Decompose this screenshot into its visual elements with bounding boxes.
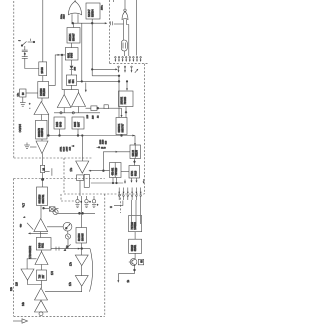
- node dot W5 x59.5: [59, 135, 61, 137]
- wire C1 to C2 with node: [24, 52, 25, 57]
- svg-text:351161: 351161: [70, 33, 72, 41]
- wire B12 to B11: [121, 170, 129, 172]
- wire x118 down with arrowhead: [117, 274, 119, 283]
- wire W9 (y213.3): [58, 212, 95, 214]
- svg-text:93010: 93010: [132, 244, 134, 251]
- node dot x92 y69: [91, 69, 93, 71]
- op-amp U5 (apex up): [35, 252, 48, 265]
- box B8: [116, 118, 127, 135]
- resistor R1 inline box: [91, 106, 97, 111]
- long wire W5 (y135.5): [47, 135, 135, 137]
- svg-text:4405: 4405: [66, 146, 68, 152]
- wire TD4 down and left (y291.7): [45, 286, 82, 292]
- svg-text:8386379: 8386379: [39, 127, 41, 137]
- gate U2 side label: [61, 13, 66, 19]
- wire y75.8 to node: [92, 75, 119, 77]
- op-amp U7 (apex up): [35, 300, 48, 312]
- svg-text:218: 218: [87, 114, 89, 118]
- wire leg x140.4 down to B19: [139, 200, 141, 216]
- transistor Q1: [129, 259, 137, 266]
- arrow symbol node 1: [28, 39, 35, 43]
- node dot at x92: [91, 22, 93, 24]
- wire B1 to B2: [42, 76, 44, 82]
- box B7: [119, 91, 134, 107]
- box B0 small input box: [20, 89, 26, 97]
- connector circle under U7: [39, 312, 43, 316]
- wire B18 down: [81, 243, 83, 249]
- meter circle M1: [63, 222, 72, 231]
- triangle TD2 (apex down): [76, 161, 89, 173]
- svg-text:17c: 17c: [71, 167, 73, 172]
- wire U5 to B17: [41, 265, 43, 271]
- wire R3 down through border: [42, 173, 44, 187]
- svg-text:8018: 8018: [135, 170, 137, 176]
- spark-gap glyph 1: [76, 196, 80, 208]
- svg-text:90: 90: [23, 92, 25, 95]
- node dot y55: [61, 54, 63, 56]
- wire B20 to transistor Q1: [134, 253, 136, 258]
- zigzag arrow pointer: [63, 244, 70, 251]
- dashed border bottom (lower section): [14, 315, 105, 317]
- svg-text:24VDC: 24VDC: [18, 124, 22, 132]
- gate U2 input leg right: [77, 14, 79, 23]
- wire x136.4 from top: [135, 0, 137, 56]
- capacitor C2: [22, 57, 28, 59]
- diode D1: [70, 60, 74, 75]
- svg-text:f: f: [18, 40, 22, 41]
- svg-text:9784: 9784: [132, 170, 134, 176]
- box 1a: [138, 259, 143, 264]
- triangle TD4 (apex down): [75, 276, 88, 287]
- svg-text:8113: 8113: [63, 146, 65, 151]
- svg-text:8095701: 8095701: [43, 194, 45, 204]
- ticks on W12: [56, 247, 59, 251]
- dashed border bottom (upper section): [14, 157, 93, 159]
- bypass arc wire: [90, 249, 93, 292]
- dashed border right inner (upper section): [109, 0, 111, 64]
- svg-text:17a: 17a: [22, 203, 26, 208]
- pin row 2 (y65-74): [118, 66, 139, 73]
- dashed border left (lower section): [13, 179, 15, 317]
- svg-text:4115: 4115: [64, 14, 66, 19]
- link B19 to B20: [134, 232, 136, 240]
- wire x62 down to hook: [61, 55, 63, 90]
- hook pin c: [136, 178, 138, 183]
- op-amp U6 (apex up): [35, 288, 48, 300]
- node dot after R1: [97, 107, 99, 109]
- svg-text:8849: 8849: [60, 121, 62, 127]
- wire B6 to hook: [71, 85, 73, 89]
- arrow into T2 right: [85, 83, 87, 93]
- link B7 to B8 with diamond: [125, 107, 128, 118]
- node dot on dashed border: [41, 178, 43, 180]
- wire arrow into B7 top: [126, 81, 128, 91]
- node dot (119,81.4): [118, 81, 120, 83]
- spark-gap glyph 3: [92, 196, 96, 208]
- or-gate U2 (pointing up): [68, 1, 81, 15]
- node dot (119,75.8): [118, 75, 120, 77]
- box B11: [129, 166, 140, 179]
- annotation arrow: [71, 145, 74, 147]
- triangle TD3 (apex down): [75, 255, 88, 266]
- wire B8 bottom to W5: [121, 135, 123, 136]
- node dot W5 x78: [77, 135, 79, 137]
- svg-text:718: 718: [40, 274, 42, 279]
- box P1: [54, 117, 65, 129]
- svg-text:17b: 17b: [71, 261, 73, 266]
- dashed border connector vertical: [63, 158, 65, 194]
- wire B4 to B5: [71, 43, 73, 48]
- resistor R2 inline box: [104, 105, 108, 109]
- gate U3 right leg to corner: [127, 20, 129, 25]
- node dot Q1 wire: [134, 269, 136, 271]
- box B10: [130, 145, 141, 159]
- dashed border top (lower section): [14, 178, 105, 180]
- svg-text:559407: 559407: [73, 33, 75, 41]
- dashed border left (upper section): [13, 1, 15, 158]
- box B14 right of B13: [84, 174, 89, 187]
- hook pin b: [131, 178, 133, 183]
- arrowhead on W5 right: [132, 135, 134, 137]
- arrow tick on y55 wire: [58, 54, 60, 56]
- svg-text:2751: 2751: [60, 146, 62, 152]
- svg-text:+: +: [89, 201, 91, 204]
- svg-text:8161: 8161: [69, 52, 71, 58]
- box B12: [110, 163, 122, 178]
- wire B3 to inverter T-down: [41, 139, 43, 141]
- wire gate-bus down x81.8: [81, 23, 83, 81]
- box B20: [129, 239, 142, 253]
- svg-text:2183: 2183: [100, 139, 102, 144]
- svg-text:2140: 2140: [101, 148, 106, 150]
- ground G2: [24, 143, 30, 149]
- svg-text:218196: 218196: [41, 88, 43, 96]
- wire W14 (y273.6) left: [118, 273, 134, 275]
- wire U4 to B16: [40, 232, 42, 238]
- wire vertical top feed: [42, 0, 44, 62]
- svg-text:5430: 5430: [40, 242, 42, 248]
- svg-text:31051: 31051: [135, 244, 137, 251]
- svg-text:131647: 131647: [89, 9, 91, 17]
- wire gate node to B4: [73, 23, 75, 27]
- wire B12 leg 2: [116, 178, 118, 184]
- diode D1 label: [75, 66, 77, 70]
- hook pin a: [124, 180, 126, 184]
- wire feedback from B2 right going up: [49, 55, 66, 86]
- wire switch to capacitor: [24, 46, 26, 50]
- svg-text:525534: 525534: [92, 9, 94, 17]
- wire Q1 down: [134, 266, 136, 274]
- svg-text:034: 034: [73, 79, 75, 84]
- node dot W5 x48: [48, 135, 50, 137]
- inverter TD5 (apex down, left column): [21, 269, 34, 280]
- wire drop to TD2: [82, 135, 84, 161]
- svg-text:206: 206: [75, 66, 77, 70]
- input arrow bottom left: [13, 319, 28, 323]
- switch S1: [21, 42, 26, 47]
- wire feedback from U1 base to W5: [47, 115, 49, 136]
- wire ground stub to TD1: [30, 146, 37, 148]
- wire B15 to op-amp U4: [40, 206, 42, 219]
- annotation text block: [60, 146, 71, 152]
- op-amp U4 (apex up): [34, 219, 48, 232]
- svg-text:12b: 12b: [11, 286, 13, 291]
- tick at top edge x113.5: [113, 0, 115, 2]
- svg-text:3911: 3911: [43, 242, 45, 248]
- wire arrow into B8 top: [121, 108, 123, 117]
- svg-text:12a: 12a: [17, 92, 19, 96]
- spark-gap glyph 2: [85, 196, 89, 208]
- connector pin row (y187-200): [118, 188, 141, 201]
- box B9 top right: [86, 3, 100, 19]
- svg-text:787133: 787133: [132, 221, 134, 229]
- svg-text:210a: 210a: [61, 13, 63, 19]
- dashed jog horizontal y201: [61, 200, 76, 202]
- connector circle on bus right: [72, 112, 74, 114]
- wire B6 output to right (y81): [77, 80, 119, 82]
- arrowhead into B10 top: [134, 143, 136, 145]
- dashed border right outer: [143, 64, 145, 194]
- svg-text:931: 931: [70, 79, 72, 84]
- wire R2 onward: [108, 107, 121, 109]
- box B16: [36, 238, 51, 251]
- arrowhead y69 wire: [115, 68, 117, 70]
- wire y24 into gate U3 legs: [114, 23, 124, 25]
- node dot W5 x121.5: [121, 135, 123, 137]
- dashed border stub (center right lower): [119, 194, 121, 213]
- svg-text:220: 220: [93, 115, 95, 119]
- svg-text:4120: 4120: [103, 139, 105, 144]
- svg-text:001338: 001338: [44, 88, 46, 96]
- dashed jog vertical x61: [60, 194, 62, 201]
- box B3: [36, 120, 47, 139]
- box B4: [67, 28, 80, 44]
- op-amp U1 input marks: [29, 103, 31, 111]
- node dot W9 b: [82, 212, 84, 214]
- svg-text:8932528: 8932528: [40, 194, 42, 204]
- box B19: [129, 216, 142, 232]
- svg-text:150983: 150983: [135, 221, 137, 229]
- wire x119 down to box B8: [118, 76, 120, 118]
- svg-text:2423: 2423: [57, 121, 59, 127]
- dashed border right (lower section): [104, 194, 106, 316]
- box B17: [37, 270, 47, 281]
- svg-text:383465: 383465: [82, 233, 84, 241]
- nor-gate U3 (pointing up, bubble): [122, 12, 128, 20]
- svg-text:3287: 3287: [78, 121, 80, 127]
- wire W5 corner down into B10: [134, 136, 136, 146]
- wire B13 down: [79, 181, 81, 197]
- svg-text:230a: 230a: [102, 4, 104, 10]
- node dot W12: [81, 248, 83, 250]
- annotation columns right of B8: [100, 139, 108, 144]
- wire B16 to U5: [41, 250, 43, 252]
- wire U4 output to meter circle: [47, 226, 63, 228]
- svg-text:318: 318: [105, 140, 107, 144]
- svg-text:+: +: [97, 204, 99, 207]
- ground G1: [20, 97, 26, 106]
- dashed border bottom (right section): [64, 193, 144, 195]
- box B18: [76, 228, 87, 244]
- wire under U4 with left arrow: [28, 232, 48, 234]
- input diagonal wire U4: [27, 223, 33, 230]
- svg-text:824896: 824896: [79, 233, 81, 241]
- svg-text:b: b: [24, 216, 26, 218]
- wire leg x131.7 down to B19: [131, 200, 133, 216]
- wire B17 to U6: [41, 281, 43, 289]
- svg-text:17d: 17d: [52, 270, 54, 275]
- wire B0 to B2: [26, 92, 38, 94]
- wire T2 base to bus: [78, 107, 80, 113]
- connector circle on bus left: [60, 112, 62, 114]
- meter circle M2: [65, 234, 70, 239]
- label row under W4: [87, 114, 100, 119]
- wire to TD3: [81, 249, 83, 256]
- svg-text:704828: 704828: [116, 167, 118, 175]
- node dot with label: [97, 147, 107, 150]
- wire M2 down: [67, 239, 69, 249]
- wire TD1 down into lower section: [42, 154, 44, 166]
- svg-text:6965: 6965: [75, 121, 77, 127]
- svg-text:4026542: 4026542: [42, 127, 44, 137]
- box B5: [65, 48, 78, 60]
- wire R1 to R2: [98, 107, 104, 109]
- svg-text:128: 128: [17, 281, 19, 286]
- gate U2 input leg left: [71, 14, 73, 23]
- svg-text:764835: 764835: [125, 96, 127, 104]
- hook wire over triangle row: [62, 89, 79, 91]
- op-amp T1 (apex up): [57, 95, 71, 108]
- wire into TD5 top: [27, 259, 36, 269]
- svg-text:10122: 10122: [133, 149, 135, 156]
- L-wire into pin column: [114, 201, 123, 206]
- dashed border step (upper right): [110, 63, 149, 65]
- svg-text:192832: 192832: [122, 96, 124, 104]
- op-amp T2 (apex up): [72, 93, 86, 107]
- svg-text:-: -: [29, 107, 30, 110]
- gate U3 left leg: [123, 20, 125, 41]
- node dot x81.8 on y81 wire: [81, 81, 83, 83]
- svg-text:-w+: -w+: [21, 223, 23, 227]
- potentiometer R3: [41, 165, 52, 175]
- wire into T1 apex: [63, 90, 65, 95]
- svg-text:10433: 10433: [42, 66, 44, 73]
- svg-text:451462: 451462: [113, 167, 115, 175]
- wire P2 to W5: [77, 129, 79, 136]
- wire y69 to pin row: [92, 68, 116, 70]
- box B1: [39, 62, 47, 76]
- wire leg x136 down to B19: [135, 200, 137, 216]
- box B13 under TD2 apex: [77, 175, 84, 181]
- wire T1 base to bus: [63, 108, 65, 113]
- wire x128.8 down: [128, 25, 130, 57]
- svg-text:C: C: [109, 206, 113, 208]
- crystal Y1 (capsule): [121, 40, 127, 51]
- svg-text:14b: 14b: [23, 301, 25, 306]
- wire W8 (y183): [91, 182, 123, 184]
- wire B9 down x92: [91, 19, 93, 76]
- wire bus to right (y23): [73, 22, 106, 24]
- wire chain x81.7 down: [81, 196, 83, 228]
- capacitor C1: [22, 50, 28, 52]
- gate U2 output stub: [74, 0, 76, 2]
- crossing ticks at dashed border: [110, 21, 112, 25]
- wire B12 leg 1: [112, 178, 114, 184]
- svg-text:22: 22: [98, 115, 100, 118]
- svg-text:227: 227: [43, 274, 45, 279]
- arrowhead on y23 wire: [105, 22, 108, 24]
- svg-text:69166: 69166: [136, 149, 138, 156]
- box B15: [37, 187, 48, 206]
- inverter TD1 (apex down): [36, 141, 48, 154]
- pin row 1 (y56-62): [115, 57, 142, 62]
- wire into B10 left: [103, 151, 130, 171]
- wire TD3 to TD4: [81, 266, 83, 276]
- node dot under B15: [43, 207, 45, 209]
- svg-text:212: 212: [69, 146, 71, 150]
- svg-text:0305641: 0305641: [119, 123, 121, 133]
- hook pin d: [143, 179, 145, 184]
- input marks U4: [21, 216, 27, 228]
- wire C2 to box B1: [25, 58, 39, 68]
- svg-text:+: +: [29, 103, 31, 106]
- wire B2 to op-amp U1: [41, 98, 43, 102]
- box B2: [38, 82, 49, 99]
- wire into T2 apex: [78, 90, 80, 93]
- bus line under triangles: [54, 112, 100, 114]
- op-amp U1 (apex up): [34, 102, 49, 115]
- svg-text:83: 83: [142, 260, 144, 263]
- wire U1 to box B3: [40, 115, 42, 121]
- svg-text:1b: 1b: [128, 279, 130, 282]
- svg-text:17b: 17b: [70, 281, 72, 286]
- svg-text:8495: 8495: [72, 52, 74, 58]
- circled junction CX: [53, 209, 58, 214]
- feedback resistor R4 (crossed box): [44, 207, 59, 211]
- box P2: [72, 117, 84, 129]
- wire P1 to W5: [59, 129, 61, 136]
- wire W4 from T2 to resistor: [86, 107, 91, 109]
- wire W12 (y248.6): [51, 248, 90, 250]
- link M1 to M2: [67, 231, 69, 234]
- wire TD5 apex to U6 wire: [28, 280, 42, 285]
- box B6: [66, 75, 76, 85]
- node dot junction under gate: [72, 22, 74, 24]
- wire Y1 to pin row: [123, 51, 125, 56]
- node dot W9 a: [79, 212, 81, 214]
- svg-text:1726401152: 1726401152: [30, 245, 32, 258]
- gate U3 output stub up: [124, 0, 126, 9]
- arrowhead on W12: [78, 248, 80, 250]
- link B10 to B11 with diamond: [133, 159, 136, 166]
- svg-text:3953767: 3953767: [122, 123, 124, 133]
- gate U3 bubble: [124, 9, 126, 11]
- wire into B12 left: [89, 170, 110, 172]
